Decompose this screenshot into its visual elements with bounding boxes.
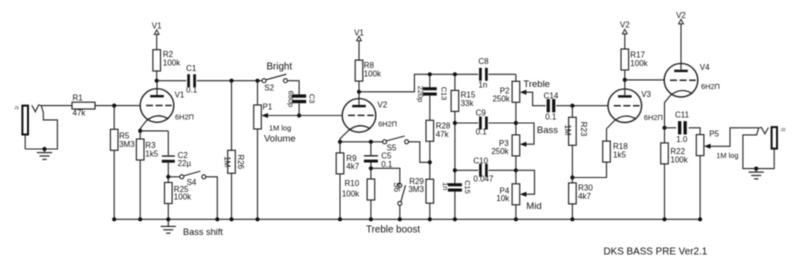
- svg-text:1M log: 1M log: [269, 123, 291, 132]
- wire V4 cathode lead: [665, 95, 671, 127]
- svg-text:100k: 100k: [342, 189, 360, 198]
- svg-text:0.047: 0.047: [473, 175, 494, 184]
- wire R28 to R29: [429, 141, 431, 179]
- resistor R1 47k: [72, 94, 95, 118]
- triode V4 6H2P: [664, 63, 720, 97]
- node bus junction P5: [698, 217, 702, 221]
- wire P3 to mid node: [515, 156, 517, 170]
- resistor R26 1M: [223, 81, 245, 174]
- wire V3 cathode lead: [607, 121, 615, 141]
- potentiometer P5 1M log: [696, 129, 738, 160]
- wire C9 net: [455, 122, 516, 124]
- node bus junction R3: [138, 217, 142, 221]
- resistor R25 100k: [165, 177, 193, 204]
- svg-text:Treble boost: Treble boost: [366, 225, 420, 236]
- wire node to P1 top: [257, 81, 259, 105]
- node V1 grid junction: [112, 104, 116, 108]
- wire V1 cathode lead: [140, 121, 146, 131]
- svg-text:47k: 47k: [436, 130, 450, 139]
- capacitor C1 0.1: [186, 64, 198, 95]
- node C5 cathode junction: [369, 140, 373, 144]
- svg-text:100k: 100k: [670, 155, 688, 164]
- wire R1 to V1 grid: [95, 105, 140, 107]
- svg-text:1n: 1n: [478, 80, 487, 89]
- wire R30 to ground bus: [571, 204, 573, 219]
- svg-text:Bright: Bright: [267, 61, 293, 72]
- svg-text:S2: S2: [264, 84, 274, 93]
- potentiometer P1 1M log Volume: [254, 102, 296, 144]
- wire R10 to ground bus: [370, 200, 372, 219]
- resistor R3 1k5: [136, 131, 158, 160]
- svg-text:DKS BASS PRE Ver2.1: DKS BASS PRE Ver2.1: [604, 246, 708, 257]
- node bus junction R5: [112, 217, 116, 221]
- wire R2 to V1 plate: [156, 71, 158, 81]
- svg-text:1M: 1M: [563, 124, 572, 135]
- wire C11 to P5: [689, 128, 700, 135]
- wire J1 to R1: [41, 105, 72, 107]
- resistor R2 100k: [153, 50, 181, 71]
- svg-text:250k: 250k: [492, 95, 510, 104]
- svg-text:0.1: 0.1: [381, 160, 393, 169]
- wire R8 to V2 plate: [358, 81, 360, 92]
- ground at output jack: [749, 169, 764, 179]
- node bus junction R25: [166, 217, 170, 221]
- svg-text:S4: S4: [187, 178, 197, 187]
- capacitor C8 1n: [478, 57, 516, 90]
- node R23 tap: [570, 104, 574, 108]
- svg-text:C15: C15: [463, 180, 472, 194]
- resistor R18 1k5: [603, 141, 629, 162]
- wire C15 to ground bus: [454, 192, 456, 220]
- svg-text:R10: R10: [345, 179, 360, 188]
- node bus junction S4: [215, 217, 219, 221]
- svg-text:R23: R23: [579, 122, 588, 137]
- wire C3 to P1 wiper rail: [298, 103, 300, 115]
- svg-text:Bass shift: Bass shift: [183, 227, 223, 237]
- svg-text:10k: 10k: [496, 194, 510, 203]
- wire C2 to R25/S4 node: [167, 163, 169, 177]
- svg-text:0.1: 0.1: [476, 128, 488, 137]
- resistor R30 4k7: [569, 178, 594, 204]
- node V2 plate junction: [357, 90, 361, 94]
- capacitor C15 1n: [441, 180, 472, 194]
- node R15 tap: [453, 72, 457, 76]
- capacitor C13 220p: [416, 74, 449, 102]
- ground symbol main bus: [161, 219, 176, 233]
- label Bass shift: [183, 227, 223, 237]
- wire R5 to ground bus: [113, 150, 115, 219]
- wire P4 to ground bus: [515, 205, 517, 220]
- capacitor C3 680p: [286, 91, 316, 107]
- svg-text:V2: V2: [676, 11, 686, 20]
- svg-text:C9: C9: [476, 109, 487, 118]
- wire P1 wiper to V2 grid: [268, 115, 342, 117]
- svg-text:C3: C3: [308, 94, 317, 103]
- switch S2 Bright: [262, 61, 292, 92]
- wire R15 to C9 C10 nodes: [454, 111, 456, 183]
- svg-text:C10: C10: [473, 156, 488, 165]
- svg-text:C1: C1: [186, 64, 197, 73]
- node bus junction S6: [398, 217, 402, 221]
- node C5 S6 R10 junction: [369, 166, 373, 170]
- resistor R10 100k: [342, 168, 375, 200]
- svg-text:Mid: Mid: [526, 201, 541, 212]
- capacitor C11 1.0: [675, 111, 690, 144]
- resistor R9 4k7: [336, 142, 360, 174]
- svg-text:C8: C8: [478, 57, 489, 66]
- resistor R8 100k: [355, 60, 382, 81]
- svg-text:S6: S6: [392, 182, 401, 192]
- svg-text:1.0: 1.0: [676, 135, 688, 144]
- wire C5 to S6/R10 node: [370, 162, 372, 168]
- triode V2 6H2P: [342, 92, 397, 132]
- node V1 plate junction: [155, 79, 159, 83]
- wire R17 to V3 plate: [624, 70, 626, 80]
- jack J2 tip contact: [759, 127, 769, 133]
- wire V4 cathode to C11: [665, 127, 677, 129]
- svg-text:22µ: 22µ: [178, 159, 192, 168]
- wire P5 to ground bus: [699, 156, 701, 220]
- wire C13 to R28: [429, 96, 431, 121]
- svg-text:3M3: 3M3: [119, 140, 135, 149]
- node V1 cathode junction: [138, 129, 142, 133]
- svg-text:220p: 220p: [416, 86, 425, 102]
- node bus junction P4: [514, 217, 518, 221]
- wire C1 to volume node: [197, 80, 262, 82]
- switch S4: [168, 171, 206, 187]
- power V2 supply arrow V3: [620, 21, 630, 49]
- node bus junction R26: [229, 217, 233, 221]
- wire R26 to ground bus: [231, 173, 233, 219]
- resistor R29 3M3: [408, 177, 433, 203]
- svg-text:1k5: 1k5: [613, 151, 626, 160]
- wire V2 plate to tone stack: [359, 74, 478, 92]
- node P1 top tap: [255, 79, 259, 83]
- resistor R15 33k: [451, 74, 476, 111]
- node C3 wiper tap: [297, 113, 301, 117]
- wire junction to R5: [113, 106, 115, 130]
- triode V1 6H2P: [140, 81, 194, 123]
- svg-text:Bass: Bass: [537, 125, 558, 136]
- node C2 R25 S4 junction: [166, 175, 170, 179]
- wire ground bus: [114, 218, 700, 220]
- svg-text:6Н2П: 6Н2П: [175, 113, 194, 122]
- svg-text:4k7: 4k7: [578, 192, 591, 201]
- wire V2 cathode rail: [340, 141, 383, 143]
- svg-text:6Н2П: 6Н2П: [701, 82, 720, 91]
- ground at input jack: [37, 149, 52, 159]
- svg-text:J1: J1: [14, 105, 19, 110]
- switch S6: [371, 168, 406, 219]
- wire C10 net: [455, 169, 516, 171]
- svg-text:J2: J2: [781, 127, 786, 132]
- node V4 cathode junction: [662, 126, 666, 130]
- wire R25 to ground bus: [167, 204, 169, 220]
- svg-text:6Н2П: 6Н2П: [644, 113, 663, 122]
- wire S4 to ground bus: [206, 177, 218, 220]
- wire R22 to ground bus: [664, 164, 666, 219]
- svg-text:680p: 680p: [286, 91, 295, 107]
- wire C14 to V3 grid: [556, 105, 608, 107]
- wire R29 to ground bus: [429, 203, 431, 219]
- svg-text:C11: C11: [675, 111, 690, 120]
- node C13 tap: [428, 72, 432, 76]
- node bus junction R22: [662, 217, 666, 221]
- label Treble boost: [366, 225, 420, 236]
- node bus junction P1: [255, 217, 259, 221]
- svg-text:33k: 33k: [461, 99, 475, 108]
- svg-text:Volume: Volume: [264, 133, 296, 144]
- svg-text:C14: C14: [544, 91, 559, 100]
- resistor R28 47k: [426, 120, 451, 141]
- capacitor C10 0.047: [473, 156, 494, 183]
- jack J1 tip contact: [32, 105, 41, 112]
- svg-text:S5: S5: [387, 143, 397, 152]
- node mid junction: [514, 168, 518, 172]
- wire P2 wiper to C14: [526, 92, 545, 106]
- triode V3 6H2P: [608, 80, 663, 123]
- resistor R17 100k: [621, 49, 649, 70]
- wire V3 plate to V4 grid: [625, 79, 664, 81]
- wire P2 to bass node: [515, 102, 517, 123]
- svg-text:V1: V1: [175, 90, 185, 99]
- wire V1 plate to C1: [157, 80, 187, 82]
- svg-text:4k7: 4k7: [346, 162, 359, 171]
- wire J1 sleeve to ground: [25, 106, 57, 149]
- wire R3 to ground bus: [139, 160, 141, 219]
- svg-text:V4: V4: [700, 63, 710, 72]
- node C10 junction: [453, 168, 457, 172]
- node R9 cathode junction: [338, 140, 342, 144]
- resistor R22 100k: [661, 128, 689, 165]
- svg-text:R1: R1: [73, 94, 84, 103]
- wire J2 sleeve to ground: [743, 128, 774, 169]
- node S5 tap junction: [428, 160, 432, 164]
- svg-text:R26: R26: [236, 154, 245, 169]
- svg-text:100k: 100k: [163, 59, 181, 68]
- svg-text:1M log: 1M log: [716, 151, 738, 160]
- resistor R5 3M3: [110, 129, 135, 150]
- potentiometer P4 10k Mid: [496, 170, 541, 212]
- power V2 supply arrow V4: [676, 11, 686, 70]
- node bus junction R10: [369, 217, 373, 221]
- svg-text:1M: 1M: [223, 156, 232, 167]
- power V1 supply arrow stage2: [354, 28, 364, 60]
- svg-text:100k: 100k: [364, 69, 382, 78]
- node J2 ground junction: [754, 167, 758, 171]
- svg-text:6Н2П: 6Н2П: [378, 120, 397, 129]
- svg-text:C13: C13: [439, 87, 448, 101]
- wire R9 to ground bus: [339, 174, 341, 219]
- capacitor C2 22u: [162, 151, 192, 168]
- svg-text:0.1: 0.1: [186, 86, 198, 95]
- capacitor C14 0.1: [544, 91, 559, 121]
- capacitor C5 0.1: [364, 142, 393, 169]
- potentiometer P3 250k Bass: [491, 123, 558, 156]
- svg-text:0.1: 0.1: [545, 112, 557, 121]
- wire R23 to divider node: [571, 145, 573, 177]
- potentiometer P2 250k Treble: [492, 74, 550, 103]
- wire P5 wiper to J2: [711, 128, 759, 147]
- svg-text:V1: V1: [152, 21, 162, 30]
- node divider junction: [570, 175, 574, 179]
- wire S2 to C3: [287, 81, 299, 95]
- node bass junction: [514, 121, 518, 125]
- svg-text:250k: 250k: [491, 147, 509, 156]
- output jack J2: [772, 127, 786, 149]
- node bus junction R9: [338, 217, 342, 221]
- node bus junction R29: [428, 217, 432, 221]
- label title: [604, 246, 708, 257]
- svg-text:V2: V2: [620, 21, 630, 30]
- svg-text:1k5: 1k5: [145, 150, 158, 159]
- input jack J1: [14, 105, 28, 134]
- svg-text:47k: 47k: [73, 108, 87, 117]
- svg-text:100k: 100k: [630, 59, 648, 68]
- wire P1 to ground bus: [257, 129, 259, 219]
- wire V2 cathode lead: [340, 131, 348, 142]
- node V3 plate junction: [623, 78, 627, 82]
- switch S5: [383, 136, 409, 152]
- capacitor C9 0.1: [476, 109, 488, 137]
- svg-text:3M3: 3M3: [408, 185, 424, 194]
- node bus junction R30: [570, 217, 574, 221]
- svg-text:1n: 1n: [441, 182, 450, 190]
- svg-text:100k: 100k: [174, 192, 192, 201]
- svg-text:P5: P5: [709, 129, 719, 138]
- wire S5 to R28 node: [409, 142, 430, 163]
- node C9 junction: [453, 121, 457, 125]
- power V1 supply arrow: [152, 21, 162, 49]
- resistor R23 1M: [563, 106, 588, 146]
- node bus junction C15: [453, 217, 457, 221]
- svg-text:V2: V2: [377, 101, 387, 110]
- node J1 ground junction: [42, 147, 46, 151]
- node R26 tap: [229, 79, 233, 83]
- svg-text:P1: P1: [263, 102, 273, 111]
- wire V1 cathode to C2: [140, 131, 168, 156]
- wire R18 to divider node: [572, 162, 606, 177]
- svg-text:V3: V3: [641, 90, 651, 99]
- svg-text:Treble: Treble: [523, 79, 550, 90]
